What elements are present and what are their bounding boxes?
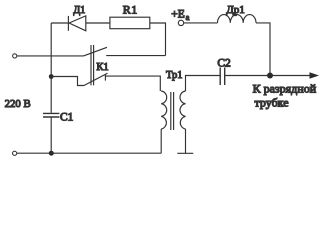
svg-text:Д1: Д1	[73, 5, 85, 16]
relay contact K1 lower fixed line to transformer	[105, 76, 160, 91]
label C2	[217, 57, 231, 69]
wire: top horizontal to diode	[51, 22, 68, 24]
wire: secondary bottom lead	[185, 129, 187, 153]
node: junction dot on left vertical	[49, 74, 54, 79]
relay contact K1 lower contact tick	[104, 74, 106, 80]
ground	[177, 152, 193, 154]
relay contact K1 upper movable arm	[84, 47, 108, 56]
label +Ea	[171, 8, 189, 21]
node: output junction dot	[267, 73, 273, 79]
node: bottom junction dot	[49, 151, 54, 156]
wire: R1 right, corner down to top fixed contact	[150, 23, 166, 56]
wire: diode to R1	[86, 22, 110, 24]
svg-text:трубке: трубке	[255, 95, 289, 109]
transformer Tr1 core lines	[171, 92, 174, 130]
wire: output arrow line	[273, 75, 313, 77]
label: to discharge tube line 1	[253, 81, 317, 95]
svg-text:+Еа: +Еа	[171, 8, 189, 21]
label C1	[60, 111, 74, 123]
resistor R1	[110, 17, 150, 29]
diode D1 triangle	[69, 16, 86, 31]
svg-text:К1: К1	[96, 62, 108, 73]
terminal: bottom input circle	[13, 151, 17, 155]
inductor Dr1	[218, 15, 257, 23]
relay K1 mechanical link lines	[91, 45, 94, 85]
wire: bottom horizontal	[17, 152, 162, 154]
wire: +Ea to choke	[184, 22, 218, 24]
relay contact K1 lower movable arm	[84, 73, 108, 85]
capacitor C1	[43, 113, 59, 117]
svg-text:С2: С2	[217, 57, 231, 69]
label 220 V	[5, 98, 31, 110]
transformer Tr1 primary winding	[161, 91, 167, 129]
svg-text:R1: R1	[123, 3, 138, 17]
relay contact K1 upper fixed contact line	[106, 55, 165, 57]
svg-text:C1: C1	[60, 111, 74, 123]
capacitor C2	[220, 68, 225, 86]
wire: choke to right corner, down to output node	[256, 23, 270, 76]
svg-text:К разрядной: К разрядной	[253, 81, 317, 95]
wire: left vertical lower segment (C1 to bottom wire)	[50, 117, 52, 153]
diode D1 cathode bar	[67, 16, 69, 31]
wire: C2 to output node	[225, 75, 271, 77]
wire: junction to lower contact (step)	[51, 77, 84, 86]
wire: left vertical upper segment (top wire corner down to C1)	[50, 23, 52, 113]
wire: top terminal to contact arm pivot	[17, 55, 84, 57]
transformer Tr1 secondary winding	[180, 91, 186, 129]
label Dr1	[226, 4, 245, 16]
svg-text:220 В: 220 В	[5, 98, 31, 110]
label Tr1	[166, 70, 183, 81]
terminal: top input circle	[13, 54, 17, 58]
label R1	[123, 3, 138, 17]
arrowhead	[310, 72, 320, 79]
label K1	[96, 62, 108, 73]
wire: secondary top lead to C2	[186, 76, 221, 92]
wire: primary bottom lead	[160, 129, 162, 153]
terminal: +Ea supply circle	[178, 20, 183, 25]
label D1	[73, 5, 85, 16]
svg-text:Др1: Др1	[226, 4, 245, 16]
label: to discharge tube line 2	[255, 95, 289, 109]
svg-text:Тр1: Тр1	[166, 70, 183, 81]
